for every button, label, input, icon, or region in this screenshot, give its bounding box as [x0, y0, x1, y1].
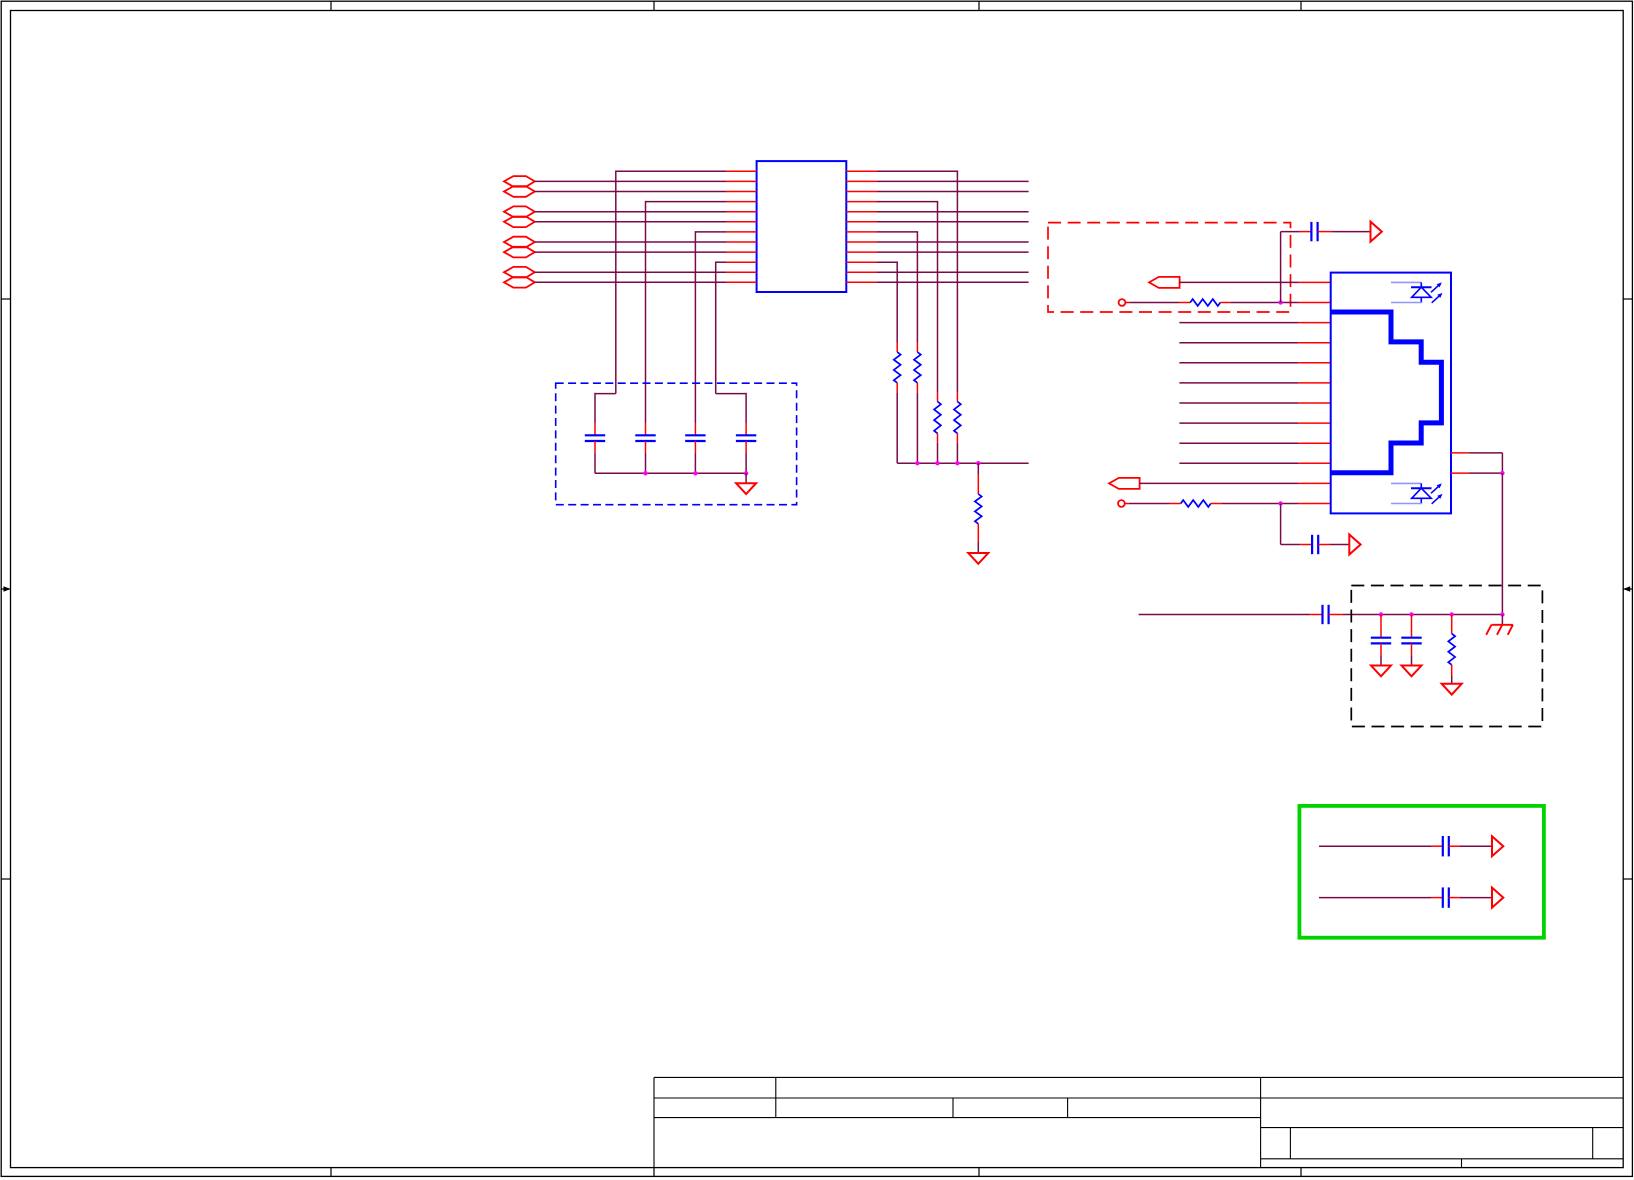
junction T5: [976, 461, 980, 465]
pin 10 stub (T1 left): [726, 261, 757, 263]
capacitor C5: [1310, 222, 1312, 241]
termination bus wire: [897, 462, 1028, 464]
pin 1 stub (T1 left): [726, 170, 757, 172]
off-page connector port RX+: [504, 206, 535, 217]
wire center-tap CT1: [616, 170, 726, 172]
port LED2_K (right arrow): [1349, 535, 1360, 555]
wire LED1_A to J1 pin1: [1180, 281, 1299, 283]
wire termination 1: [877, 170, 958, 172]
chassis ground EGND: [1491, 624, 1513, 626]
wire to C5: [1280, 232, 1282, 303]
resistor R4: [894, 352, 901, 383]
junction LED feed bottom: [1278, 501, 1282, 505]
port OPT1 (right arrow): [1492, 836, 1503, 856]
pin 14 stub (T1 right): [846, 271, 877, 273]
junction C3: [693, 471, 697, 475]
pin 7 stub (T1 left): [726, 231, 757, 233]
wire NC2 to R7: [1125, 503, 1129, 505]
title block: [654, 1076, 1623, 1078]
resistor R8: [1448, 634, 1455, 665]
capacitor C2: [635, 434, 655, 436]
capacitor C7: [1321, 605, 1323, 624]
wire NC1 to R6: [1125, 302, 1129, 304]
wire TRD2+ to T1: [535, 241, 726, 243]
capacitor C6: [1311, 535, 1313, 554]
wire TRD line 3 to J1: [1179, 362, 1298, 364]
wire C6 to port: [1318, 544, 1330, 546]
junction C9: [1409, 612, 1413, 616]
pin 21 stub (T1 right): [846, 201, 877, 203]
ground GND1: [736, 483, 756, 494]
wire R6 to J1 pin2: [1220, 302, 1230, 304]
wire shield 2: [1469, 472, 1503, 474]
resistor R7: [1181, 500, 1211, 507]
pin 5 stub (T1 left): [726, 211, 757, 213]
wire TRD2- to T1: [535, 251, 726, 253]
pin 17 stub (T1 right): [846, 241, 877, 243]
off-page connector port TRD2-: [504, 247, 535, 258]
wire termination 4: [877, 261, 898, 263]
junction C4: [744, 471, 748, 475]
capacitor C3: [685, 434, 705, 436]
wire option 1: [1319, 845, 1431, 847]
junction shield: [1500, 471, 1504, 475]
port LED2_A (left arrow): [1109, 478, 1140, 489]
wire MDI signal 7: [877, 271, 1029, 273]
center-tap filter box (blue dashed): [556, 383, 797, 505]
wire C9 to GND: [1411, 643, 1413, 655]
pin 8 stub (T1 left): [726, 241, 757, 243]
pin 19 stub (T1 right): [846, 221, 877, 223]
pin 18 stub (T1 right): [846, 231, 877, 233]
wire TRD line 2 to J1: [1179, 342, 1298, 344]
LED D2 (in J1): [1391, 482, 1421, 484]
wire center-tap CT2: [646, 201, 727, 203]
wire R2 to bus: [937, 433, 939, 443]
wire C10 to port: [1449, 845, 1460, 847]
ground GND5: [1442, 684, 1462, 695]
off-page connector port RX-: [504, 217, 535, 228]
wire MDI signal 2: [877, 191, 1029, 193]
pin 2 stub (T1 left): [726, 180, 757, 182]
resistor R5: [975, 494, 982, 524]
wire center-tap CT4: [716, 261, 726, 263]
wire C11 to port: [1449, 897, 1460, 899]
wire chassis bus: [1139, 614, 1311, 616]
wire shield 1: [1469, 452, 1503, 454]
wire C7 to box: [1329, 614, 1343, 616]
junction T4: [955, 461, 959, 465]
wire LED2_A to J1 pin11: [1140, 482, 1299, 484]
wire TX+ to T1: [535, 180, 726, 182]
wire TRD line 5 to J1: [1179, 402, 1298, 404]
resistor R1: [954, 402, 961, 434]
pin 9 stub (T1 left): [726, 251, 757, 253]
wire C4 to ground bus: [745, 441, 747, 453]
wire TRD line 6 to J1: [1179, 422, 1298, 424]
junction LED feed top: [1278, 300, 1282, 304]
wire MDI signal 5: [877, 241, 1029, 243]
wire to C8: [1380, 615, 1382, 638]
wire C8 to GND: [1380, 643, 1382, 655]
wire to C9: [1411, 615, 1413, 638]
wire MDI signal 1: [877, 180, 1029, 182]
off-page connector port TRD3+: [504, 267, 535, 278]
junction T3: [935, 461, 939, 465]
junction R8: [1450, 612, 1454, 616]
wire C2 to ground bus: [645, 441, 647, 453]
wire termination 2: [877, 201, 938, 203]
capacitor C8: [1371, 637, 1391, 639]
ground GND4: [1402, 666, 1422, 677]
pin 11 stub (T1 left): [726, 271, 757, 273]
wire TX- to T1: [535, 191, 726, 193]
pin 13 stub (T1 right): [846, 281, 877, 283]
wire MDI signal 8: [877, 281, 1029, 283]
no-connect pad NC1: [1119, 299, 1126, 306]
wire center-tap CT3: [695, 231, 726, 233]
wire R3 to bus: [916, 383, 918, 393]
junction C2: [643, 471, 647, 475]
port LED1_K (right arrow): [1371, 222, 1382, 242]
pin 4 stub (T1 left): [726, 201, 757, 203]
ground bus wire: [595, 472, 746, 474]
wire TRD3+ to T1: [535, 271, 726, 273]
junction chassis: [1500, 612, 1504, 616]
wire termination 3: [877, 231, 918, 233]
wire to GND: [745, 473, 747, 483]
option box (green): [1299, 806, 1544, 938]
capacitor C1: [585, 434, 605, 436]
wire RX- to T1: [535, 221, 726, 223]
wire C1 to ground bus: [594, 441, 596, 453]
RJ45 jack J1 body: [1331, 273, 1451, 514]
wire TRD line 1 to J1: [1179, 322, 1298, 324]
capacitor C4: [736, 434, 756, 436]
ground GND3: [1371, 666, 1391, 677]
wire option 2: [1319, 897, 1431, 899]
wire MDI signal 3: [877, 211, 1029, 213]
resistor R6: [1190, 299, 1220, 306]
wire C5 to port: [1318, 231, 1332, 233]
pin 12 stub (T1 left): [726, 281, 757, 283]
resistor R2: [934, 402, 941, 434]
capacitor C11: [1442, 887, 1444, 907]
wire MDI signal 4: [877, 221, 1029, 223]
wire MDI signal 6: [877, 251, 1029, 253]
magnetics transformer module T1: [757, 161, 847, 292]
wire to R8: [1451, 615, 1453, 634]
wire C3 to ground bus: [694, 441, 696, 453]
pin 22 stub (T1 right): [846, 191, 877, 193]
pin 23 stub (T1 right): [846, 180, 877, 182]
wire to C6: [1280, 504, 1282, 545]
pin 6 stub (T1 left): [726, 221, 757, 223]
junction T2: [915, 461, 919, 465]
resistor R3: [914, 352, 921, 383]
RJ45 jack contact profile: [1331, 312, 1442, 473]
wire shield drop: [1501, 473, 1503, 614]
wire bus to R5: [977, 463, 979, 474]
pin 15 stub (T1 right): [846, 261, 877, 263]
off-page connector port TX-: [504, 186, 535, 197]
pin 24 stub (T1 right): [846, 170, 877, 172]
pin 20 stub (T1 right): [846, 211, 877, 213]
junction C8: [1379, 612, 1383, 616]
LED D1 (in J1): [1391, 281, 1421, 283]
wire TRD line 7 to J1: [1179, 442, 1298, 444]
wire to chassis ground: [1501, 615, 1503, 625]
wire R8 to GND: [1451, 665, 1453, 676]
wire RX+ to T1: [535, 211, 726, 213]
wire R4 to bus: [896, 383, 898, 393]
ground GND2: [968, 553, 988, 564]
port LED1_A (left arrow): [1149, 277, 1180, 288]
capacitor C10: [1442, 836, 1444, 856]
wire TRD line 4 to J1: [1179, 382, 1298, 384]
wire R5 to GND: [977, 524, 979, 543]
pin 3 stub (T1 left): [726, 191, 757, 193]
wire TRD3- to T1: [535, 281, 726, 283]
capacitor C9: [1401, 637, 1421, 639]
wire R1 to bus: [956, 433, 958, 443]
no-connect pad NC2: [1118, 500, 1125, 507]
wire TRD line 8 to J1: [1179, 462, 1298, 464]
off-page connector port TX+: [504, 176, 535, 187]
off-page connector port TRD2+: [504, 237, 535, 248]
pin 16 stub (T1 right): [846, 251, 877, 253]
off-page connector port TRD3-: [504, 277, 535, 288]
port OPT2 (right arrow): [1492, 888, 1503, 908]
pin shield stub 1: [1451, 452, 1469, 454]
isolation box (red dashed): [1048, 223, 1291, 312]
wire R7 to J1 pin12: [1211, 503, 1222, 505]
pin shield stub 2: [1451, 472, 1469, 474]
shield filter box (black dashed): [1351, 586, 1542, 727]
